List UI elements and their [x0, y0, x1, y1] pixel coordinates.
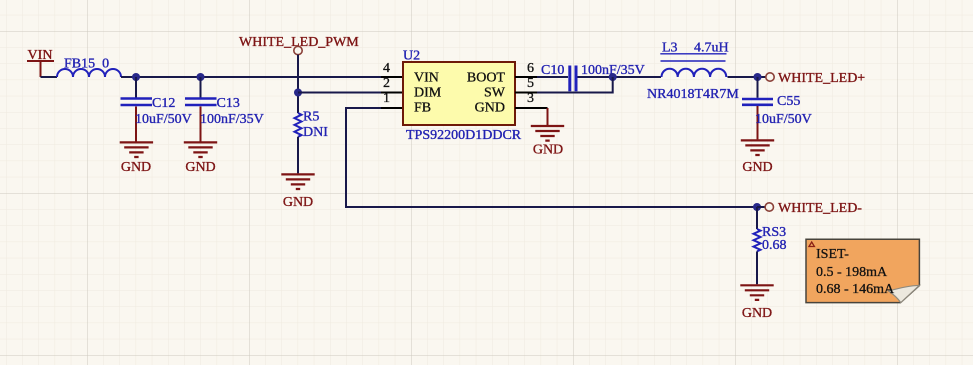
svg-text:C13: C13: [217, 96, 240, 111]
svg-text:GND: GND: [742, 306, 772, 321]
junction DIM net: [294, 89, 302, 97]
power port VIN: [27, 48, 54, 77]
capacitor C12: [121, 77, 192, 142]
svg-text:GND: GND: [475, 100, 505, 115]
svg-text:DIM: DIM: [414, 85, 442, 100]
resistor RS3: [754, 225, 787, 253]
ground for C12: [120, 142, 153, 175]
junction at C12: [132, 73, 140, 81]
svg-text:C55: C55: [777, 94, 800, 109]
svg-text:C12: C12: [152, 96, 175, 111]
U2 pin names VIN DIM FB BOOT SW GND: [414, 70, 506, 115]
ground for RS3: [740, 285, 773, 321]
wire L3 to WHITE_LED+: [728, 76, 766, 78]
wire to RS3: [756, 207, 758, 229]
svg-text:6: 6: [527, 61, 534, 76]
pin 6 stub + wire to C10: [515, 76, 537, 78]
svg-text:NR4018T4R7M: NR4018T4R7M: [647, 87, 739, 102]
wire FB net: pin1 left, down, right to WHITE_LED-: [346, 108, 757, 207]
note box ISET: [806, 239, 919, 302]
svg-text:GND: GND: [121, 160, 151, 175]
svg-text:R5: R5: [303, 110, 319, 125]
svg-text:4: 4: [383, 61, 390, 76]
ground for U2: [531, 126, 564, 158]
pin 1 stub: [381, 107, 403, 109]
svg-text:10uF/50V: 10uF/50V: [755, 112, 812, 127]
svg-text:1: 1: [383, 91, 390, 106]
svg-text:5: 5: [527, 76, 534, 91]
svg-text:WHITE_LED+: WHITE_LED+: [778, 71, 865, 86]
wire junction down and left to pin 5: [537, 77, 613, 93]
junction WHITE_LED-: [753, 203, 761, 211]
svg-text:FB15 0: FB15 0: [64, 57, 109, 72]
svg-text:SW: SW: [484, 85, 506, 100]
svg-text:GND: GND: [185, 160, 215, 175]
svg-text:0.68: 0.68: [762, 238, 787, 253]
ground for R5: [281, 174, 314, 210]
svg-text:100nF/35V: 100nF/35V: [200, 112, 264, 127]
svg-text:GND: GND: [533, 143, 563, 158]
svg-text:FB: FB: [414, 100, 431, 115]
svg-text:2: 2: [383, 76, 390, 91]
U2 pin numbers 4 2 1 6 5 3: [383, 61, 534, 106]
svg-text:ISET-: ISET-: [816, 247, 849, 262]
svg-text:0.5 - 198mA: 0.5 - 198mA: [816, 265, 888, 280]
svg-text:DNI: DNI: [303, 125, 328, 140]
junction WHITE_LED+: [754, 73, 762, 81]
ground for C13: [184, 142, 217, 175]
svg-text:WHITE_LED_PWM: WHITE_LED_PWM: [239, 35, 359, 50]
svg-text:WHITE_LED-: WHITE_LED-: [778, 201, 862, 216]
resistor R5: [295, 110, 329, 140]
wire DIM net to pin 2: [298, 92, 381, 94]
svg-text:10uF/50V: 10uF/50V: [135, 112, 192, 127]
svg-text:BOOT: BOOT: [467, 70, 506, 85]
junction SW/BOOT: [609, 73, 617, 81]
wire FB15 to U2 pin 4 (VIN rail): [121, 76, 381, 78]
pin 5 stub: [515, 92, 537, 94]
pin 2 stub: [381, 92, 403, 94]
svg-text:C10: C10: [541, 63, 564, 78]
node WHITE_LED+: [766, 71, 866, 86]
port WHITE_LED_PWM: [239, 35, 359, 55]
capacitor C10: [541, 63, 645, 91]
wire C10 to junction: [578, 76, 662, 78]
wire RS3 to ground: [756, 251, 758, 284]
wire VIN to FB15: [41, 76, 58, 78]
IC U2 TPS92200D1DDCR: [403, 49, 522, 144]
wire WHITE_LED_PWM down to DIM net: [297, 55, 299, 113]
wire pin 3 to ground: [547, 108, 549, 125]
svg-text:VIN: VIN: [414, 70, 439, 85]
svg-text:U2: U2: [403, 49, 420, 64]
pin 4 stub: [381, 76, 403, 78]
svg-text:GND: GND: [742, 160, 772, 175]
wire junction to node circle: [757, 206, 765, 208]
ground for C55: [741, 140, 774, 175]
node WHITE_LED-: [765, 201, 862, 216]
capacitor C13: [185, 77, 264, 142]
inductor L3: [647, 41, 739, 103]
wire R5 to ground: [297, 137, 299, 174]
capacitor C55: [742, 77, 812, 139]
pin 3 stub: [515, 107, 548, 109]
ferrite bead FB15: [57, 57, 121, 78]
junction at C13: [197, 73, 205, 81]
svg-text:GND: GND: [283, 195, 313, 210]
svg-text:TPS92200D1DDCR: TPS92200D1DDCR: [406, 128, 522, 143]
svg-text:0.68 - 146mA: 0.68 - 146mA: [816, 282, 895, 297]
